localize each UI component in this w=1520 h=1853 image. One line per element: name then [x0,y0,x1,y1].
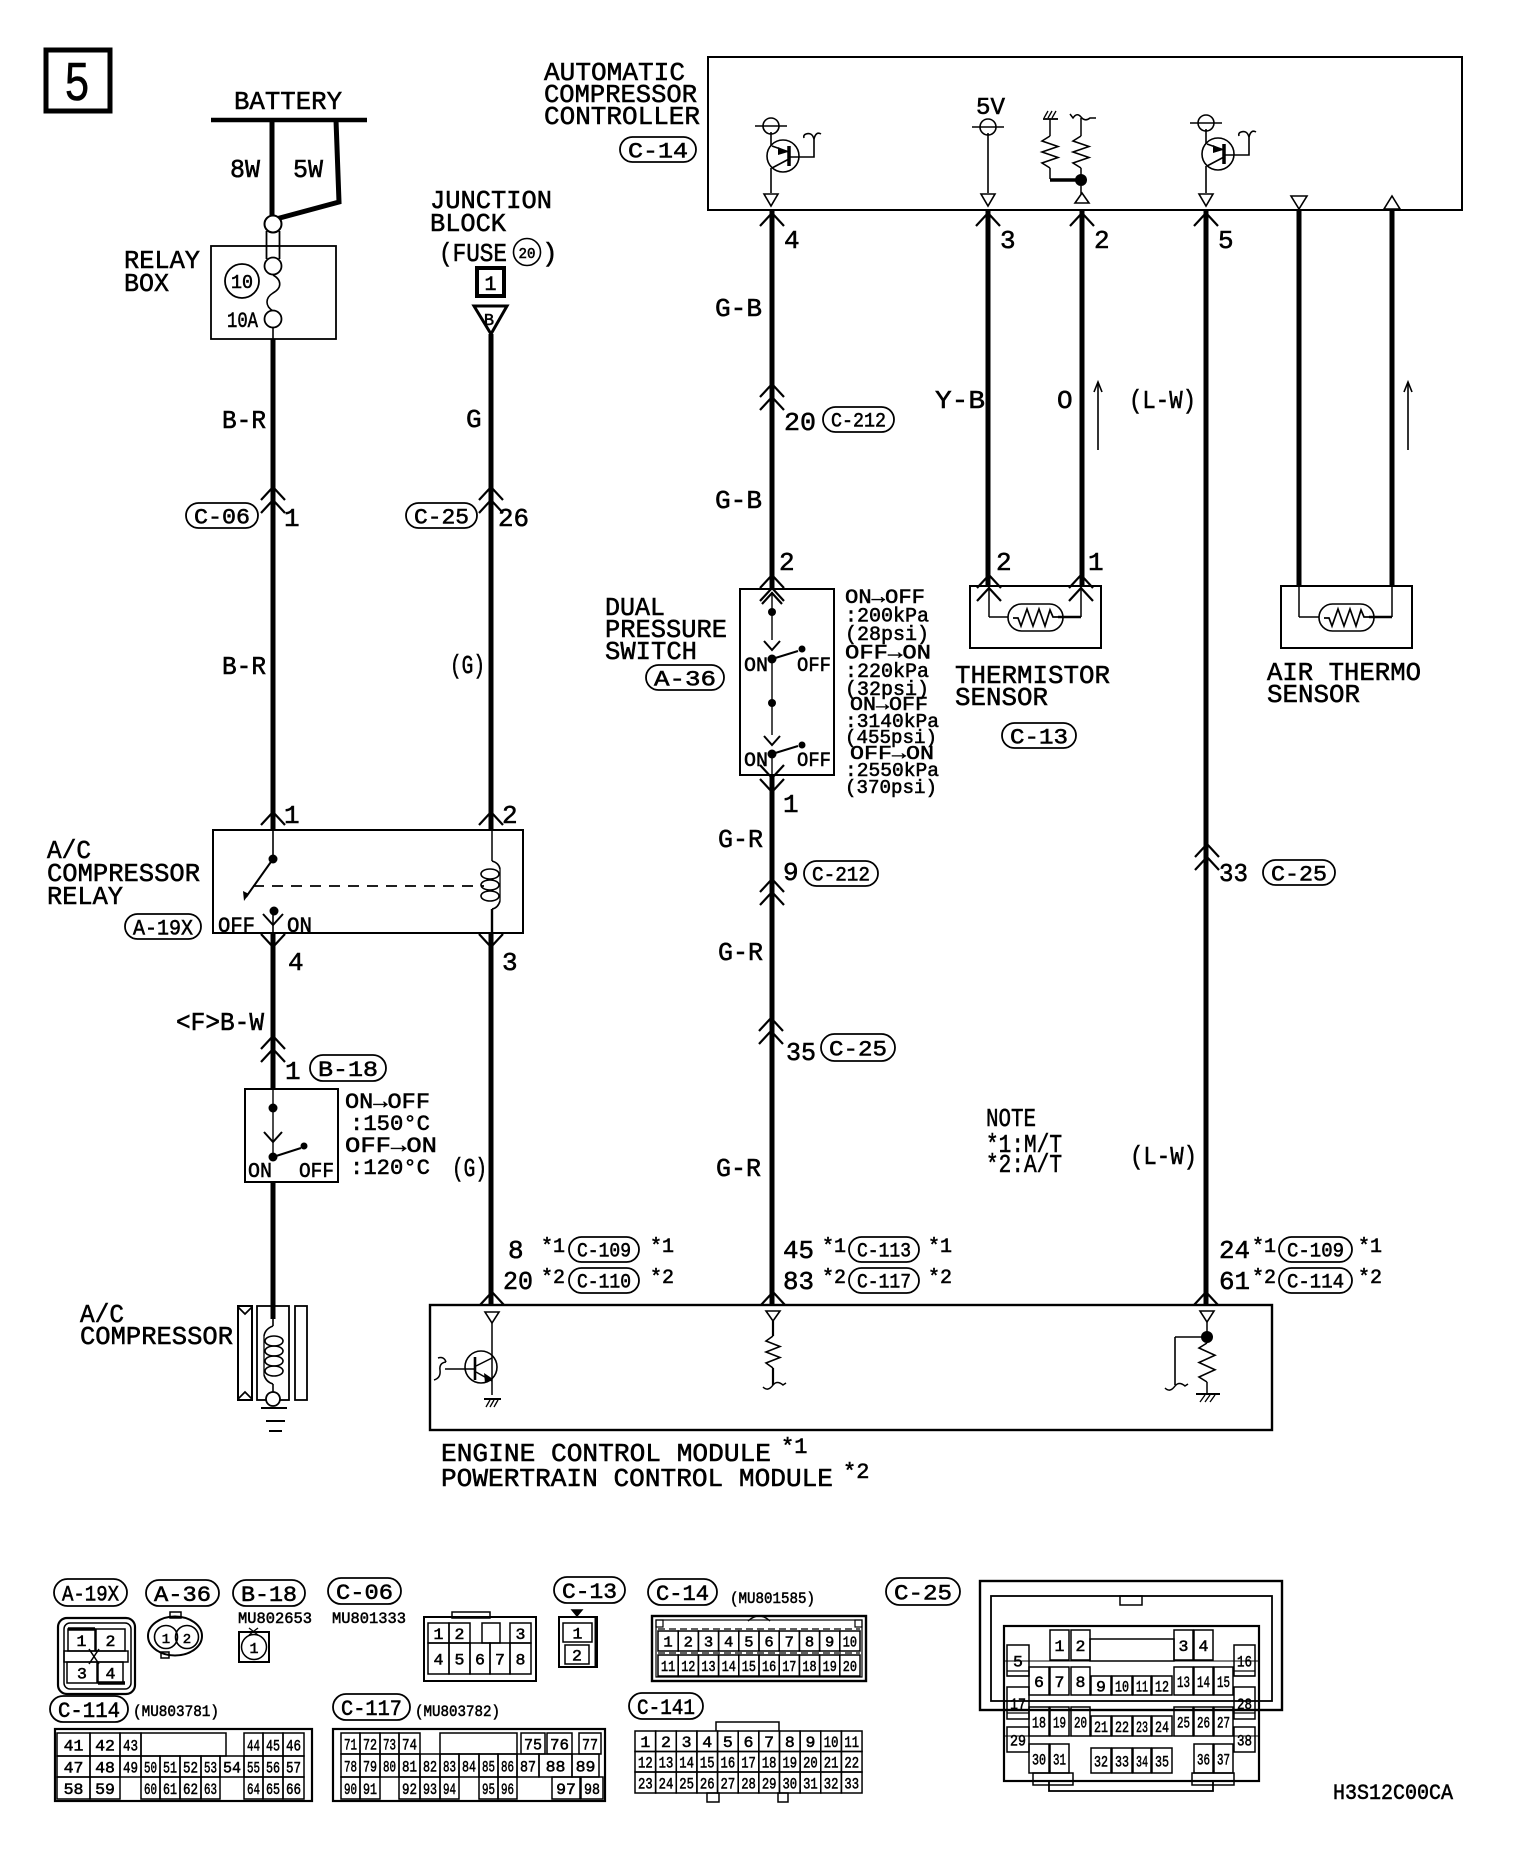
svg-text:*1: *1 [928,1236,952,1259]
svg-text:7: 7 [785,1634,794,1651]
svg-text:90: 90 [344,1781,357,1799]
svg-text:12: 12 [638,1755,653,1773]
svg-text:BATTERY: BATTERY [234,87,342,117]
svg-text:55: 55 [247,1759,260,1777]
svg-text:4: 4 [784,226,800,256]
svg-text:ON: ON [287,914,312,939]
svg-text:88: 88 [546,1758,566,1776]
svg-text:OFF: OFF [797,750,831,773]
svg-text:C-06: C-06 [336,1581,393,1606]
svg-text:MU802653: MU802653 [238,1610,312,1628]
svg-text:13: 13 [1177,1674,1190,1692]
svg-text:85: 85 [482,1758,495,1776]
svg-text:1: 1 [484,274,496,297]
svg-text:2: 2 [684,1634,693,1651]
svg-text:1: 1 [284,801,300,831]
svg-text:1: 1 [249,1641,258,1658]
svg-text:2: 2 [455,1626,465,1644]
svg-text:A-36: A-36 [654,667,716,692]
svg-text:9: 9 [1096,1678,1106,1696]
svg-text:74: 74 [402,1736,417,1754]
svg-text:C-25: C-25 [414,505,469,530]
svg-text:20: 20 [503,1267,533,1297]
svg-text:B-R: B-R [222,652,266,682]
svg-text:80: 80 [383,1758,396,1776]
svg-text:16: 16 [1237,1653,1252,1671]
svg-text:36: 36 [1197,1751,1210,1769]
svg-text:(MU803781): (MU803781) [133,1703,219,1721]
svg-text:1: 1 [663,1634,672,1651]
svg-text:64: 64 [247,1781,260,1799]
svg-text:C-25: C-25 [829,1037,887,1062]
svg-text:93: 93 [423,1781,437,1799]
svg-text:61: 61 [1219,1267,1250,1297]
svg-text:5: 5 [723,1734,733,1752]
svg-text:26: 26 [700,1775,715,1793]
svg-text:58: 58 [64,1781,84,1799]
svg-text:5: 5 [64,53,90,117]
svg-text:(370psi): (370psi) [845,777,937,799]
svg-text:C-110: C-110 [577,1272,631,1295]
svg-text:RELAY: RELAY [47,882,123,912]
svg-text:25: 25 [679,1775,694,1793]
svg-text:C-114: C-114 [58,1699,120,1724]
svg-text:20: 20 [519,246,536,263]
svg-text:1: 1 [640,1734,650,1752]
svg-text:15: 15 [1217,1674,1230,1692]
svg-text:11: 11 [661,1659,675,1676]
svg-text:76: 76 [550,1736,569,1754]
svg-text:84: 84 [462,1758,476,1776]
svg-text:OFF: OFF [299,1161,334,1184]
svg-text:31: 31 [803,1775,818,1793]
svg-text:45: 45 [266,1737,280,1755]
svg-text:53: 53 [204,1759,217,1777]
svg-text:G: G [466,405,482,435]
svg-text:41: 41 [64,1737,84,1755]
svg-text:1: 1 [284,504,300,534]
svg-text:SWITCH: SWITCH [605,637,697,667]
svg-text:5: 5 [455,1651,465,1669]
svg-text:78: 78 [344,1758,357,1776]
svg-text:C-25: C-25 [894,1581,952,1606]
svg-text:16: 16 [721,1755,736,1773]
svg-text:2: 2 [183,1632,191,1648]
svg-text:*2: *2 [843,1460,869,1485]
svg-text:*1: *1 [1358,1236,1382,1259]
svg-text:89: 89 [576,1758,596,1776]
svg-text:9: 9 [825,1634,834,1651]
svg-text:32: 32 [1094,1753,1108,1771]
svg-text:C-212: C-212 [831,411,886,434]
svg-text:C-109: C-109 [577,1241,631,1264]
svg-text:27: 27 [1217,1714,1230,1732]
svg-text:1: 1 [1055,1638,1065,1656]
svg-text:1: 1 [783,790,799,820]
svg-text:8: 8 [1076,1674,1086,1692]
svg-text:87: 87 [520,1758,536,1776]
svg-text:5V: 5V [976,95,1006,122]
svg-text:*1: *1 [822,1236,846,1259]
svg-text:B-18: B-18 [241,1583,297,1608]
svg-text:2: 2 [572,1647,582,1665]
svg-text:SENSOR: SENSOR [1267,680,1360,710]
svg-text:(FUSE: (FUSE [439,239,507,269]
svg-text:C-117: C-117 [857,1272,911,1295]
svg-text:3: 3 [1000,226,1016,256]
svg-text:50: 50 [144,1759,157,1777]
svg-text:30: 30 [1032,1751,1046,1769]
svg-text:10: 10 [843,1634,857,1651]
svg-text:A-19X: A-19X [62,1582,119,1607]
svg-text:1: 1 [162,1632,170,1648]
svg-text:COMPRESSOR: COMPRESSOR [80,1322,233,1352]
svg-text:35: 35 [786,1038,816,1068]
svg-text:97: 97 [556,1781,576,1799]
svg-text:*1: *1 [1252,1236,1276,1259]
svg-text:7: 7 [495,1651,505,1669]
svg-text:45: 45 [783,1236,814,1266]
svg-text:9: 9 [783,858,799,888]
svg-text:*2: *2 [541,1267,565,1290]
svg-text:1: 1 [1088,548,1104,578]
svg-text:10: 10 [824,1734,839,1752]
svg-text:G-R: G-R [718,938,763,968]
svg-text:G-B: G-B [715,294,762,324]
svg-text:22: 22 [844,1755,859,1773]
svg-text:17: 17 [741,1755,756,1773]
svg-text:ON: ON [248,1161,272,1184]
svg-text:*2:A/T: *2:A/T [986,1150,1062,1180]
svg-text:22: 22 [1115,1719,1129,1737]
svg-text:24: 24 [659,1775,674,1793]
svg-text:*1: *1 [650,1236,674,1259]
svg-text:9: 9 [805,1734,815,1752]
svg-text:B-18: B-18 [318,1058,378,1083]
svg-text:4: 4 [724,1634,733,1651]
svg-text:15: 15 [700,1755,715,1773]
svg-text:23: 23 [1136,1719,1148,1737]
svg-text:BOX: BOX [124,269,169,299]
svg-text:2: 2 [996,548,1012,578]
svg-text:*2: *2 [1252,1267,1276,1290]
svg-text:5: 5 [1218,226,1234,256]
svg-text:2: 2 [661,1734,671,1752]
svg-text:10: 10 [1115,1678,1129,1696]
svg-text:8W: 8W [230,155,260,185]
svg-text:C-109: C-109 [1287,1241,1344,1264]
svg-text:C-13: C-13 [1010,725,1068,750]
svg-text:8: 8 [805,1634,814,1651]
svg-text:12: 12 [1155,1678,1169,1696]
svg-text:37: 37 [1217,1751,1230,1769]
svg-text:1: 1 [573,1625,583,1643]
svg-text:16: 16 [762,1659,776,1676]
svg-text:11: 11 [844,1734,859,1752]
svg-text:6: 6 [1034,1674,1044,1692]
svg-text:C-114: C-114 [1287,1272,1344,1295]
svg-text:C-13: C-13 [562,1580,617,1605]
svg-text:11: 11 [1136,1678,1148,1696]
svg-text:18: 18 [1032,1714,1046,1732]
svg-text:66: 66 [286,1781,301,1799]
svg-text:13: 13 [659,1755,674,1773]
svg-text:C-212: C-212 [812,865,870,888]
svg-text:BLOCK: BLOCK [430,209,506,239]
svg-text:CONTROLLER: CONTROLLER [544,102,700,132]
svg-text:C-14: C-14 [656,1582,709,1607]
svg-text:): ) [542,239,558,269]
svg-text:29: 29 [762,1775,777,1793]
svg-text:*2: *2 [650,1267,674,1290]
svg-text:14: 14 [1197,1674,1210,1692]
svg-text:C-14: C-14 [628,139,688,164]
svg-text:12: 12 [681,1659,695,1676]
svg-text:2: 2 [1076,1638,1086,1656]
svg-text:C-25: C-25 [1271,862,1327,887]
svg-text:10A: 10A [227,309,259,334]
svg-text:Y-B: Y-B [935,386,985,416]
svg-text:C-141: C-141 [637,1696,695,1721]
svg-text:98: 98 [584,1781,600,1799]
svg-text:G-R: G-R [716,1154,761,1184]
svg-text:MU801333: MU801333 [332,1610,406,1628]
svg-text:OFF: OFF [218,914,255,939]
svg-text:1: 1 [434,1626,444,1644]
svg-text:17: 17 [782,1659,796,1676]
svg-text:2: 2 [1094,226,1110,256]
svg-text:30: 30 [782,1775,797,1793]
svg-text:52: 52 [183,1759,198,1777]
svg-text:7: 7 [764,1734,774,1752]
svg-text:14: 14 [679,1755,694,1773]
svg-text:*2: *2 [822,1267,846,1290]
svg-text:13: 13 [701,1659,715,1676]
svg-text:A-36: A-36 [154,1583,211,1608]
svg-text:19: 19 [1053,1714,1066,1732]
svg-text:4: 4 [702,1734,712,1752]
svg-text:B: B [484,312,494,331]
svg-text:<F>B-W: <F>B-W [176,1008,264,1038]
svg-text:31: 31 [1053,1751,1066,1769]
svg-text:C-117: C-117 [341,1697,402,1722]
svg-text:47: 47 [64,1759,84,1777]
svg-text:81: 81 [402,1758,417,1776]
svg-text:86: 86 [501,1758,514,1776]
svg-text:35: 35 [1155,1753,1169,1771]
svg-text:94: 94 [443,1781,456,1799]
svg-text:4: 4 [434,1651,444,1669]
svg-text:59: 59 [95,1781,115,1799]
svg-text:5W: 5W [293,155,323,185]
svg-text:24: 24 [1155,1719,1169,1737]
svg-text:8: 8 [516,1651,526,1669]
svg-text:19: 19 [782,1755,797,1773]
svg-text:56: 56 [266,1759,280,1777]
svg-text:60: 60 [144,1781,157,1799]
svg-text:1: 1 [285,1057,301,1087]
svg-text:2: 2 [779,548,795,578]
svg-text:29: 29 [1010,1732,1026,1750]
svg-text:18: 18 [802,1659,816,1676]
svg-text:33: 33 [1115,1753,1129,1771]
svg-text:17: 17 [1010,1696,1026,1714]
svg-text:33: 33 [1219,859,1248,889]
svg-text:4: 4 [1199,1638,1209,1656]
svg-text:*2: *2 [928,1267,952,1290]
svg-text::120°C: :120°C [350,1156,430,1181]
svg-text:28: 28 [741,1775,756,1793]
svg-text:44: 44 [247,1737,260,1755]
svg-text:20: 20 [843,1659,857,1676]
svg-text:(MU803782): (MU803782) [415,1703,500,1721]
svg-text:3: 3 [502,948,518,978]
svg-text:POWERTRAIN CONTROL MODULE: POWERTRAIN CONTROL MODULE [441,1464,833,1494]
svg-text:3: 3 [77,1665,87,1683]
svg-text:(G): (G) [450,651,485,681]
svg-text:73: 73 [383,1736,396,1754]
svg-text:51: 51 [163,1759,177,1777]
svg-text:8: 8 [508,1236,524,1266]
svg-text:75: 75 [524,1736,542,1754]
svg-text:6: 6 [475,1651,485,1669]
svg-text:26: 26 [498,504,529,534]
svg-text:83: 83 [443,1758,456,1776]
svg-text:91: 91 [363,1781,377,1799]
svg-text:18: 18 [762,1755,777,1773]
svg-text:O: O [1057,386,1073,416]
svg-text:(MU801585): (MU801585) [730,1590,815,1608]
svg-text:48: 48 [95,1759,115,1777]
svg-text:A-19X: A-19X [133,916,193,941]
svg-text:(L-W): (L-W) [1130,1142,1197,1172]
svg-text:83: 83 [783,1267,814,1297]
svg-text:20: 20 [1074,1714,1087,1732]
svg-text:96: 96 [501,1781,514,1799]
svg-text:54: 54 [223,1759,241,1777]
svg-text:8: 8 [785,1734,795,1752]
svg-text:25: 25 [1177,1714,1190,1732]
svg-text:21: 21 [1094,1719,1108,1737]
svg-text:95: 95 [482,1781,495,1799]
svg-text:5: 5 [1013,1653,1023,1671]
svg-text:26: 26 [1197,1714,1210,1732]
svg-text:46: 46 [286,1737,301,1755]
svg-text:3: 3 [704,1634,713,1651]
svg-text:24: 24 [1219,1236,1250,1266]
svg-text:(G): (G) [452,1154,487,1184]
svg-text:G-B: G-B [715,486,762,516]
svg-text:B-R: B-R [222,406,266,436]
svg-text:28: 28 [1237,1696,1252,1714]
svg-text:*1: *1 [781,1435,807,1460]
svg-text:3: 3 [516,1626,526,1644]
svg-text:43: 43 [123,1737,138,1755]
svg-text:4: 4 [106,1665,116,1683]
svg-text:14: 14 [722,1659,736,1676]
svg-text:*1: *1 [541,1236,565,1259]
svg-text:23: 23 [638,1775,653,1793]
svg-text:7: 7 [1055,1674,1065,1692]
svg-text:C-06: C-06 [194,505,250,530]
svg-text:3: 3 [1179,1638,1189,1656]
svg-text:71: 71 [344,1736,357,1754]
svg-text:79: 79 [363,1758,377,1776]
svg-text:20: 20 [803,1755,818,1773]
svg-text:H3S12C00CA: H3S12C00CA [1333,1781,1454,1806]
svg-text:2: 2 [106,1633,116,1651]
svg-text:33: 33 [844,1775,859,1793]
svg-text:92: 92 [402,1781,417,1799]
svg-text:6: 6 [764,1634,773,1651]
svg-text:4: 4 [288,948,304,978]
svg-text:15: 15 [742,1659,756,1676]
svg-text:27: 27 [721,1775,736,1793]
svg-text:G-R: G-R [718,825,763,855]
svg-text:SENSOR: SENSOR [955,683,1048,713]
svg-text:C-113: C-113 [857,1241,911,1264]
svg-text:38: 38 [1237,1732,1252,1750]
svg-text:57: 57 [286,1759,301,1777]
svg-text:5: 5 [744,1634,753,1651]
svg-text:1: 1 [77,1633,87,1651]
svg-text:77: 77 [582,1736,598,1754]
svg-text:2: 2 [502,801,518,831]
svg-text:(L-W): (L-W) [1129,386,1196,416]
svg-text:ON: ON [744,655,768,678]
svg-text:63: 63 [204,1781,217,1799]
svg-text:21: 21 [824,1755,839,1773]
svg-text:62: 62 [183,1781,198,1799]
svg-text:65: 65 [266,1781,280,1799]
svg-text:32: 32 [824,1775,839,1793]
svg-text:10: 10 [231,272,253,294]
svg-text:82: 82 [423,1758,437,1776]
svg-text:20: 20 [784,408,816,438]
svg-text:61: 61 [163,1781,177,1799]
svg-text:72: 72 [363,1736,377,1754]
svg-text:34: 34 [1136,1753,1148,1771]
svg-text:*2: *2 [1358,1267,1382,1290]
svg-text:42: 42 [95,1737,115,1755]
svg-text:OFF: OFF [797,655,831,678]
svg-text:49: 49 [123,1759,138,1777]
svg-text:3: 3 [682,1734,692,1752]
svg-text:6: 6 [744,1734,754,1752]
svg-text:19: 19 [823,1659,837,1676]
